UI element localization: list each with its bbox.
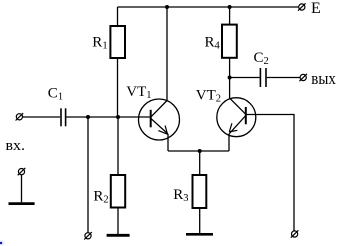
svg-text:E: E [311, 0, 321, 17]
svg-text:вых: вых [311, 69, 336, 88]
svg-text:вх.: вх. [6, 138, 26, 154]
